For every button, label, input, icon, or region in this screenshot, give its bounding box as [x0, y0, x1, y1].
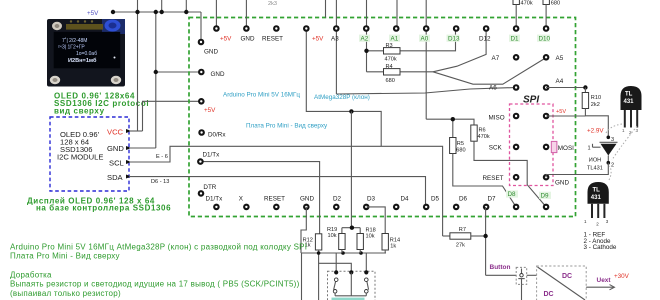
svg-text:D6: D6 — [459, 196, 468, 203]
svg-text:GND: GND — [204, 48, 218, 55]
resistor R18 — [359, 228, 361, 234]
svg-text:GND: GND — [555, 179, 569, 186]
svg-text:VCC: VCC — [107, 127, 124, 136]
svg-text:R7: R7 — [459, 227, 466, 233]
svg-text:Arduino Pro Mini 5V 16МГц AtMe: Arduino Pro Mini 5V 16МГц AtMega328P (кл… — [10, 242, 307, 251]
wire R3 row — [367, 50, 384, 52]
svg-text:+5V: +5V — [204, 107, 216, 114]
svg-text:GND: GND — [241, 35, 255, 42]
svg-text:AtMega328P (клон): AtMega328P (клон) — [314, 94, 370, 101]
svg-text:D6 - 13: D6 - 13 — [151, 179, 169, 185]
svg-text:D7: D7 — [488, 196, 497, 203]
pin D13 top — [453, 25, 460, 32]
DC-DC converter box — [537, 266, 587, 300]
wire anode to GND — [546, 163, 608, 178]
wire GND to module — [129, 147, 156, 149]
svg-text:вид сверху: вид сверху — [54, 106, 105, 115]
svg-text:A1: A1 — [391, 35, 399, 42]
transistor package TL431 bottom — [584, 182, 609, 227]
svg-text:431: 431 — [624, 99, 635, 105]
pin VCC marker — [126, 129, 132, 133]
svg-text:R6: R6 — [479, 128, 486, 134]
wire drops to switches — [335, 253, 337, 272]
wire button to dcdc — [527, 274, 537, 276]
svg-text:(выпаивал только резистор): (выпаивал только резистор) — [10, 289, 121, 298]
SPI header box — [510, 104, 554, 186]
resistor 680 above D10 — [543, 0, 549, 5]
svg-text:680: 680 — [551, 1, 560, 7]
wire vertical VCC riser — [137, 0, 139, 131]
wire A3 to A6 — [336, 88, 516, 95]
wire A4 to R10 — [546, 87, 585, 89]
OLED I2C module box U2 — [50, 117, 129, 191]
svg-text:+30V: +30V — [614, 273, 630, 280]
svg-text:2: 2 — [611, 162, 614, 168]
resistor R14 — [367, 207, 386, 234]
resistor R10 — [584, 88, 586, 93]
svg-text:MISO: MISO — [489, 114, 505, 121]
pin SCL marker — [126, 160, 132, 164]
resistor R7 — [443, 235, 450, 237]
pin +5V top — [303, 25, 310, 32]
svg-text:SCK: SCK — [489, 145, 503, 152]
ISP switch box — [328, 271, 376, 300]
svg-text:2k3: 2k3 — [268, 1, 277, 7]
svg-text:10k: 10k — [366, 233, 375, 239]
svg-text:+5V: +5V — [312, 35, 324, 42]
svg-text:680: 680 — [456, 147, 465, 153]
svg-text:MOSI: MOSI — [558, 145, 574, 152]
svg-text:Button: Button — [490, 264, 511, 271]
wire SDA net D6-13 — [129, 177, 426, 207]
pin +5V top — [213, 25, 220, 32]
wire ground bus drop left — [301, 253, 303, 300]
pin GND bottom — [303, 204, 310, 211]
Arduino Pro Mini board outline — [189, 18, 576, 217]
wire stub top — [325, 0, 327, 18]
resistor R12 — [315, 234, 321, 250]
notes text block — [10, 242, 307, 298]
wire +5V pin branch — [143, 101, 202, 131]
svg-text:Arduino Pro Mini 5V 16МГц: Arduino Pro Mini 5V 16МГц — [223, 92, 300, 99]
svg-text:на базе контроллера SSD1306: на базе контроллера SSD1306 — [36, 204, 171, 213]
wire riser to +5V pin — [215, 0, 217, 29]
pin D0/Rx — [198, 129, 205, 136]
svg-text:D10: D10 — [539, 35, 551, 42]
wire to A5 — [433, 58, 546, 85]
wire R6 to D9 — [474, 141, 546, 207]
svg-text:D13: D13 — [448, 35, 460, 42]
switch S2 — [365, 278, 369, 282]
wire to D12 — [433, 29, 486, 72]
pin SDA marker — [126, 175, 132, 179]
svg-text:D3: D3 — [367, 196, 376, 203]
pin D10 top — [543, 25, 550, 32]
svg-text:A5: A5 — [556, 55, 564, 62]
wire VCC to module — [129, 130, 143, 132]
pin D1/Tx bottom — [213, 204, 220, 211]
svg-text:I2C MODULE: I2C MODULE — [57, 153, 103, 162]
svg-text:470k: 470k — [478, 134, 490, 140]
svg-text:A3: A3 — [331, 35, 339, 42]
svg-text:D1/Tx: D1/Tx — [206, 196, 224, 203]
transistor package TL431 top — [621, 86, 642, 135]
wire GND pin branch — [156, 71, 202, 73]
svg-text:D5: D5 — [431, 196, 440, 203]
pin D4 bottom — [393, 204, 400, 211]
wire long vertical — [350, 111, 352, 227]
pin D6 bottom — [453, 204, 460, 211]
svg-text:SPI: SPI — [523, 95, 539, 106]
wire rail corner down to GND pin — [200, 12, 202, 42]
pin D12 top — [483, 25, 490, 32]
svg-text:ИОН: ИОН — [589, 158, 601, 164]
wire MISO to R10 — [546, 115, 585, 117]
svg-text:SDA: SDA — [107, 173, 124, 182]
wire riser A2 — [366, 0, 368, 72]
caption display — [27, 196, 171, 212]
pinout legend — [584, 231, 617, 251]
svg-text:RESET: RESET — [483, 175, 504, 182]
svg-text:D0/Rx: D0/Rx — [208, 132, 226, 139]
svg-text:DC: DC — [544, 291, 554, 298]
svg-text:+5V: +5V — [87, 10, 99, 17]
wire R5 top — [452, 119, 454, 137]
svg-text:470k: 470k — [521, 1, 533, 7]
wire R5 to D8 — [453, 154, 516, 207]
svg-text:2k2: 2k2 — [591, 102, 600, 108]
svg-text:TL431: TL431 — [587, 166, 603, 172]
wire button bottom — [521, 284, 523, 300]
resistor R5 — [450, 138, 456, 154]
pin A3 top — [333, 25, 340, 32]
svg-text:D1: D1 — [511, 35, 520, 42]
svg-text:Плата Pro Mini - Вид сверху: Плата Pro Mini - Вид сверху — [246, 123, 328, 130]
pin GND left — [198, 69, 205, 76]
wire D1/Tx to R12 — [200, 162, 319, 234]
svg-text:+2.9V: +2.9V — [587, 127, 604, 134]
svg-text:DC: DC — [562, 273, 572, 280]
svg-text:D9: D9 — [541, 193, 550, 200]
wire ground bus — [301, 252, 386, 254]
svg-text:470k: 470k — [385, 57, 397, 63]
wire R12 bottom — [318, 250, 320, 300]
svg-text:+5V: +5V — [220, 35, 232, 42]
svg-text:D1/Tx: D1/Tx — [203, 151, 221, 158]
resistor R19 — [341, 228, 343, 234]
dotted link top package — [606, 124, 623, 134]
resistor R4 — [384, 69, 401, 75]
wire A0 branch — [426, 119, 474, 125]
svg-text:E - 6: E - 6 — [156, 154, 168, 160]
label connector highlighted — [332, 298, 365, 300]
wire switch bottom bus — [334, 293, 336, 296]
pin A2 top — [363, 25, 370, 32]
wire stub up B — [185, 0, 187, 12]
wire +5V pin path — [306, 29, 381, 147]
wire GND bottom path — [301, 207, 306, 253]
svg-text:D2: D2 — [333, 196, 342, 203]
svg-text:10k: 10k — [328, 233, 337, 239]
svg-text:A0: A0 — [421, 35, 429, 42]
svg-text:TL: TL — [593, 188, 601, 194]
pin D5 bottom — [423, 204, 430, 211]
svg-text:R10: R10 — [591, 95, 601, 101]
svg-text:Плата Pro Mini - Вид сверху: Плата Pro Mini - Вид сверху — [10, 252, 120, 261]
wire riser to GND pin — [245, 0, 247, 29]
svg-text:DTR: DTR — [203, 184, 216, 191]
wire R19 R18 top bus — [342, 227, 360, 229]
resistor R6 — [471, 125, 477, 141]
resistor R3 — [384, 48, 401, 54]
wire riser A1 — [396, 0, 398, 29]
button box SB1 — [516, 267, 527, 284]
svg-text:Доработка: Доработка — [10, 270, 52, 279]
wire E-6 net — [129, 146, 443, 236]
pin D7 bottom — [483, 204, 490, 211]
TL431 shunt symbol U3 — [587, 136, 618, 172]
svg-text:D8: D8 — [508, 191, 517, 198]
wire R10 bottom — [585, 109, 608, 138]
pin GND inner — [198, 39, 205, 46]
svg-text:+5V: +5V — [556, 109, 566, 115]
wire to button — [486, 274, 517, 276]
OLED module photo (top view) — [47, 19, 125, 87]
pin A1 top — [393, 25, 400, 32]
pin GND marker — [126, 146, 132, 150]
wire riser A3 — [335, 0, 337, 94]
svg-text:SCL: SCL — [109, 159, 124, 168]
svg-text:D12: D12 — [479, 35, 491, 42]
pin RESET top — [273, 25, 280, 32]
wire GND drop to module — [155, 12, 157, 148]
pin A0 top — [423, 25, 430, 32]
svg-text:7˚| 2/2-48М: 7˚| 2/2-48М — [62, 37, 87, 44]
pin GND top — [243, 25, 250, 32]
svg-text:TL: TL — [625, 92, 633, 98]
svg-text:431: 431 — [591, 195, 602, 201]
svg-text:²⁴З| 1Г2+ГР: ²⁴З| 1Г2+ГР — [58, 45, 85, 51]
svg-text:RESET: RESET — [264, 196, 285, 203]
svg-text:RESET: RESET — [262, 35, 283, 42]
pin D2 bottom — [333, 204, 340, 211]
svg-text:A6: A6 — [489, 85, 497, 92]
svg-text:GND: GND — [211, 71, 225, 78]
caption OLED photo — [54, 92, 149, 116]
svg-text:1k: 1k — [390, 243, 396, 249]
wire R4 row — [367, 71, 384, 73]
svg-text:GND: GND — [107, 144, 124, 153]
wire Uext out — [586, 286, 613, 288]
pin D8 bottom — [513, 204, 520, 211]
svg-text:A4: A4 — [556, 78, 564, 85]
wire riser A0 — [425, 0, 427, 119]
wire stub up A — [161, 0, 163, 12]
svg-text:GND: GND — [300, 196, 314, 203]
wire top rail — [113, 11, 201, 13]
resistor 470k above D1 — [513, 0, 519, 5]
svg-text:1: 1 — [588, 146, 591, 152]
wire D7 column — [485, 207, 487, 275]
svg-text:R4: R4 — [386, 64, 393, 70]
pin D9 bottom — [543, 204, 550, 211]
dotted link bottom package — [609, 166, 611, 180]
switch contacts — [334, 270, 338, 274]
junction dots on rail — [111, 10, 115, 14]
svg-text:A7: A7 — [492, 55, 500, 62]
svg-text:Uext: Uext — [597, 277, 612, 284]
pin D1 top — [513, 25, 520, 32]
resistor MOSI highlight — [551, 141, 557, 152]
svg-text:D4: D4 — [401, 196, 410, 203]
svg-text:680: 680 — [386, 78, 395, 84]
svg-text:И2Вн=1мб: И2Вн=1мб — [68, 57, 97, 64]
wire middle through — [350, 272, 352, 295]
pin D3 bottom — [363, 204, 370, 211]
pin RESET bottom — [273, 204, 280, 211]
svg-text:R5: R5 — [457, 141, 464, 147]
pin X bottom — [243, 204, 250, 211]
svg-text:Выпаять резистор и светодиод и: Выпаять резистор и светодиод идущие на 1… — [10, 280, 300, 289]
switch S1 — [334, 278, 338, 282]
svg-text:R3: R3 — [386, 43, 393, 49]
svg-text:1о=0.0аб: 1о=0.0аб — [76, 51, 97, 57]
svg-text:3 - Cathode: 3 - Cathode — [584, 244, 617, 251]
svg-text:A2: A2 — [361, 35, 369, 42]
pin +5V left — [198, 98, 205, 105]
svg-text:27k: 27k — [456, 243, 465, 249]
